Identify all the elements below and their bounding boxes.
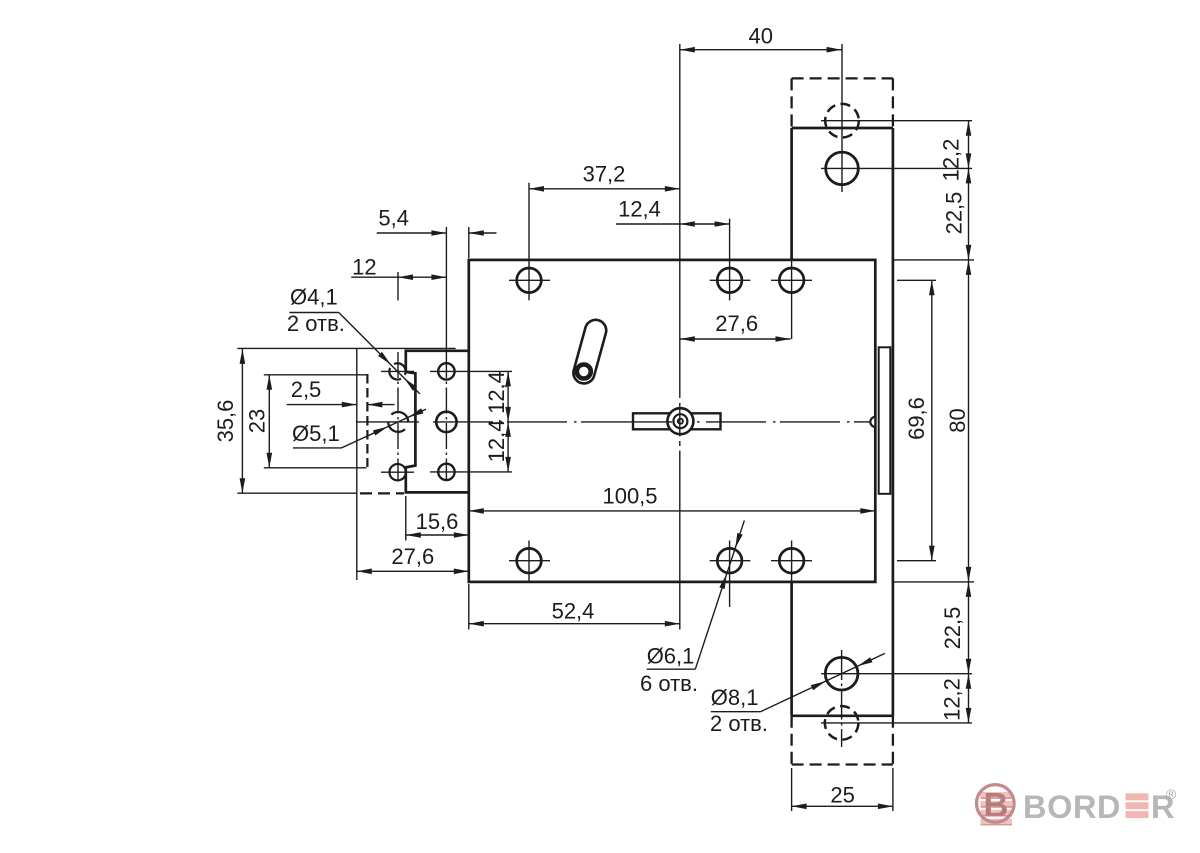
svg-text:12,4: 12,4 [484, 419, 509, 462]
svg-text:100,5: 100,5 [602, 484, 657, 509]
svg-text:2 отв.: 2 отв. [287, 311, 345, 336]
svg-text:23: 23 [245, 409, 270, 433]
svg-text:Ø6,1: Ø6,1 [647, 644, 695, 669]
svg-text:12,4: 12,4 [484, 371, 509, 414]
svg-text:12: 12 [352, 255, 376, 280]
svg-text:69,6: 69,6 [904, 397, 929, 440]
svg-text:35,6: 35,6 [213, 400, 238, 443]
svg-text:52,4: 52,4 [552, 598, 595, 623]
svg-text:27,6: 27,6 [391, 544, 434, 569]
svg-text:37,2: 37,2 [583, 161, 626, 186]
svg-text:40: 40 [748, 24, 772, 49]
svg-text:22,5: 22,5 [940, 607, 965, 650]
svg-text:Ø5,1: Ø5,1 [292, 421, 340, 446]
svg-text:2,5: 2,5 [291, 377, 322, 402]
svg-text:80: 80 [945, 408, 970, 432]
svg-text:Ø4,1: Ø4,1 [290, 285, 338, 310]
svg-text:12,2: 12,2 [940, 678, 965, 721]
svg-text:27,6: 27,6 [715, 311, 758, 336]
svg-text:Ø8,1: Ø8,1 [711, 685, 759, 710]
svg-text:BORD: BORD [1023, 789, 1121, 825]
svg-text:12,2: 12,2 [939, 139, 964, 182]
svg-text:2 отв.: 2 отв. [710, 711, 768, 736]
svg-text:12,4: 12,4 [618, 197, 661, 222]
svg-text:®: ® [1166, 786, 1177, 802]
svg-text:6 отв.: 6 отв. [640, 671, 698, 696]
svg-text:15,6: 15,6 [416, 509, 459, 534]
svg-text:22,5: 22,5 [942, 192, 967, 235]
svg-text:25: 25 [830, 783, 854, 808]
svg-text:5,4: 5,4 [378, 206, 409, 231]
